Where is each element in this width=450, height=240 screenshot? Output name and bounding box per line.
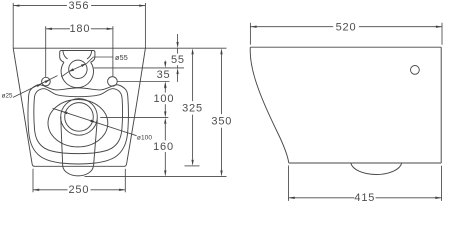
svg-text:325: 325	[182, 103, 203, 115]
svg-text:ø25: ø25	[2, 92, 13, 99]
svg-text:250: 250	[69, 184, 90, 196]
svg-text:100: 100	[154, 93, 175, 105]
svg-text:356: 356	[69, 0, 90, 12]
svg-text:55: 55	[171, 54, 185, 66]
svg-text:520: 520	[336, 21, 357, 33]
svg-text:350: 350	[211, 116, 232, 128]
svg-text:ø100: ø100	[137, 135, 153, 142]
svg-text:415: 415	[354, 192, 375, 204]
svg-text:160: 160	[153, 141, 174, 153]
svg-text:180: 180	[70, 23, 91, 35]
svg-text:ø55: ø55	[115, 53, 128, 62]
svg-text:35: 35	[157, 69, 171, 81]
